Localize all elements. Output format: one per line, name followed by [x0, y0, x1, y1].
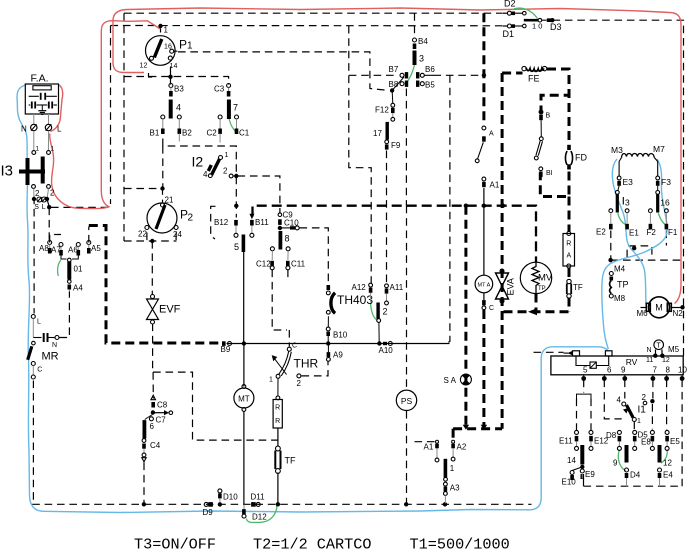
svg-text:L: L [42, 204, 46, 211]
svg-text:2: 2 [144, 63, 148, 70]
svg-text:B5: B5 [425, 81, 435, 90]
svg-text:B7: B7 [389, 65, 399, 74]
svg-text:TP: TP [617, 280, 629, 290]
svg-text:RV: RV [626, 357, 638, 367]
svg-text:D8: D8 [606, 431, 617, 440]
svg-text:6: 6 [150, 422, 155, 431]
svg-text:E5: E5 [670, 437, 680, 446]
svg-text:MT: MT [238, 395, 250, 404]
svg-text:D1: D1 [503, 29, 515, 39]
svg-text:7: 7 [653, 366, 658, 375]
svg-text:4: 4 [203, 170, 208, 179]
svg-text:B6: B6 [425, 65, 435, 74]
svg-text:14: 14 [567, 456, 576, 465]
svg-text:E8: E8 [641, 438, 651, 447]
svg-text:17: 17 [373, 129, 382, 138]
svg-text:T3=ON/OFF: T3=ON/OFF [134, 536, 216, 550]
svg-text:I1: I1 [638, 405, 647, 416]
svg-text:A4: A4 [73, 284, 83, 293]
svg-text:TF: TF [285, 456, 296, 466]
svg-text:3: 3 [625, 198, 630, 208]
svg-text:M5: M5 [668, 345, 680, 354]
svg-text:R: R [275, 418, 280, 425]
svg-text:E10: E10 [562, 478, 577, 487]
svg-text:A3: A3 [450, 484, 460, 493]
svg-text:M7: M7 [653, 144, 665, 154]
svg-text:D4: D4 [630, 471, 641, 480]
svg-text:B2: B2 [182, 129, 192, 138]
svg-text:C2: C2 [207, 129, 218, 138]
svg-text:9: 9 [613, 459, 618, 468]
svg-text:C7: C7 [156, 416, 167, 425]
svg-text:I3: I3 [1, 163, 14, 180]
svg-text:A: A [489, 131, 494, 138]
svg-text:C: C [292, 343, 297, 350]
svg-text:A5: A5 [91, 244, 101, 253]
svg-text:A8: A8 [39, 244, 49, 253]
svg-text:TF: TF [573, 283, 583, 292]
svg-text:F1: F1 [668, 228, 678, 237]
svg-text:3: 3 [419, 54, 424, 64]
svg-text:1: 1 [164, 26, 169, 35]
svg-text:22: 22 [138, 230, 147, 239]
svg-text:B3: B3 [174, 85, 184, 94]
svg-text:B4: B4 [418, 37, 428, 46]
svg-text:E3: E3 [623, 177, 634, 187]
svg-text:TP: TP [538, 286, 546, 292]
svg-text:01: 01 [74, 265, 83, 274]
svg-text:M8: M8 [614, 294, 626, 303]
svg-text:2: 2 [297, 379, 302, 388]
svg-text:A6: A6 [68, 246, 78, 255]
svg-text:F9: F9 [391, 141, 401, 150]
svg-text:6: 6 [607, 366, 612, 375]
svg-text:B11: B11 [255, 218, 269, 227]
svg-text:21: 21 [165, 196, 174, 205]
svg-text:1: 1 [225, 152, 229, 159]
svg-text:A7: A7 [51, 246, 61, 255]
svg-text:8: 8 [285, 234, 290, 244]
svg-text:4: 4 [174, 63, 178, 70]
svg-text:A9: A9 [333, 351, 343, 360]
svg-text:R: R [275, 405, 280, 412]
svg-text:F.A.: F.A. [31, 73, 49, 85]
svg-text:MR: MR [42, 351, 59, 363]
svg-text:1: 1 [637, 418, 641, 425]
svg-text:M3: M3 [611, 145, 623, 155]
svg-text:C11: C11 [291, 260, 306, 269]
svg-text:E4: E4 [663, 471, 673, 480]
svg-text:T1=500/1000: T1=500/1000 [410, 536, 510, 550]
svg-text:F12: F12 [375, 106, 389, 115]
svg-text:E2: E2 [596, 228, 606, 237]
svg-text:C: C [37, 367, 42, 374]
svg-text:B8: B8 [389, 80, 399, 89]
svg-text:A1: A1 [424, 443, 434, 452]
svg-text:C4: C4 [150, 441, 161, 450]
svg-text:C3: C3 [214, 85, 225, 94]
svg-text:5: 5 [234, 242, 239, 252]
svg-text:A1: A1 [490, 181, 500, 190]
svg-text:C1: C1 [239, 129, 250, 138]
svg-text:A2: A2 [457, 443, 467, 452]
svg-text:2: 2 [223, 167, 228, 176]
svg-text:11: 11 [646, 357, 653, 364]
svg-text:4: 4 [176, 103, 181, 113]
svg-text:24: 24 [173, 230, 182, 239]
svg-text:2: 2 [50, 189, 55, 198]
svg-text:T2=1/2 CARTCO: T2=1/2 CARTCO [253, 536, 371, 550]
svg-text:N: N [21, 125, 27, 134]
svg-text:D10: D10 [223, 493, 238, 502]
svg-text:N2: N2 [673, 309, 684, 318]
svg-text:THR: THR [294, 357, 319, 371]
svg-text:MT A: MT A [478, 283, 491, 289]
svg-text:1: 1 [450, 464, 455, 473]
svg-text:L: L [37, 319, 41, 326]
svg-text:I2: I2 [192, 154, 204, 170]
svg-text:B: B [546, 113, 551, 120]
svg-text:MV: MV [538, 273, 553, 284]
svg-text:4: 4 [617, 396, 622, 405]
svg-text:10: 10 [678, 366, 687, 375]
svg-text:EVF: EVF [159, 304, 181, 316]
svg-text:A: A [566, 253, 571, 260]
svg-text:P: P [179, 38, 187, 52]
svg-text:1: 1 [187, 41, 193, 52]
svg-text:1 0: 1 0 [532, 22, 542, 31]
svg-text:M6: M6 [637, 309, 649, 318]
svg-text:TH403: TH403 [337, 293, 373, 307]
svg-text:D12: D12 [252, 513, 267, 522]
svg-text:2: 2 [642, 393, 647, 402]
svg-text:C: C [489, 305, 494, 312]
svg-text:B10: B10 [333, 331, 348, 340]
svg-text:E11: E11 [559, 437, 573, 446]
svg-text:2: 2 [188, 213, 194, 224]
svg-text:D11: D11 [251, 493, 266, 502]
svg-text:D3: D3 [550, 22, 562, 32]
svg-text:BI: BI [546, 170, 553, 177]
svg-text:7: 7 [233, 103, 238, 113]
svg-text:F3: F3 [661, 177, 671, 187]
svg-text:EVA: EVA [506, 278, 516, 295]
svg-text:E1: E1 [629, 229, 639, 238]
svg-text:C10: C10 [284, 219, 299, 228]
svg-text:C12: C12 [256, 260, 271, 269]
svg-text:B9: B9 [221, 345, 231, 354]
svg-text:N: N [647, 347, 652, 354]
svg-text:PS: PS [401, 396, 413, 406]
svg-text:L: L [57, 125, 62, 134]
svg-text:S A: S A [444, 376, 457, 385]
svg-text:FD: FD [575, 153, 587, 163]
svg-text:R: R [566, 241, 571, 248]
svg-text:M: M [655, 303, 663, 313]
svg-text:B1: B1 [150, 129, 160, 138]
svg-text:B12: B12 [214, 218, 229, 227]
svg-text:D9: D9 [203, 508, 214, 517]
svg-text:1: 1 [36, 146, 40, 153]
svg-text:D2: D2 [504, 0, 516, 9]
svg-text:1: 1 [51, 146, 55, 153]
svg-text:9: 9 [621, 366, 626, 375]
svg-text:N: N [52, 342, 57, 349]
svg-text:12: 12 [662, 357, 670, 364]
svg-text:A10: A10 [379, 346, 394, 355]
svg-text:16: 16 [660, 198, 670, 208]
svg-text:T: T [657, 343, 662, 350]
svg-text:C8: C8 [157, 401, 168, 410]
svg-text:A11: A11 [390, 283, 404, 292]
svg-text:2: 2 [383, 307, 388, 317]
svg-text:A12: A12 [352, 283, 367, 292]
svg-text:F2: F2 [647, 228, 657, 237]
svg-text:12: 12 [663, 459, 672, 468]
svg-text:FE: FE [528, 74, 540, 84]
svg-text:S: S [34, 204, 39, 211]
svg-text:1: 1 [269, 377, 273, 384]
svg-text:5: 5 [583, 366, 588, 375]
svg-text:8: 8 [666, 366, 671, 375]
svg-text:E9: E9 [585, 470, 595, 479]
svg-text:M4: M4 [614, 265, 626, 274]
